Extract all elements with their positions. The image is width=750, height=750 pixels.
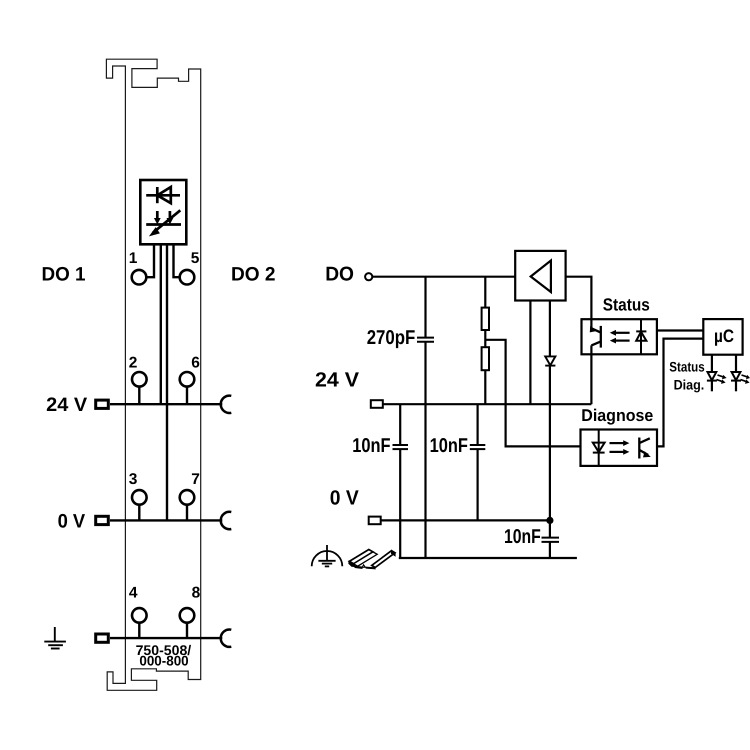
svg-text:10nF: 10nF bbox=[352, 435, 390, 457]
Diagnose optocoupler box bbox=[581, 430, 658, 466]
pin 1 circle bbox=[132, 270, 147, 285]
Status optocoupler box bbox=[582, 319, 657, 354]
svg-text:µC: µC bbox=[714, 326, 734, 346]
status emitter wire to 24V bbox=[590, 345, 592, 404]
svg-text:4: 4 bbox=[129, 585, 138, 602]
LED box diode symbol bbox=[146, 187, 180, 203]
svg-text:000-800: 000-800 bbox=[139, 652, 188, 668]
uC LED 2 bbox=[731, 372, 741, 381]
24V square terminal left bbox=[96, 400, 109, 408]
pin 7 stub bbox=[186, 505, 188, 521]
junction dot 0V bbox=[546, 517, 553, 524]
diagnose arrows bbox=[610, 443, 626, 452]
svg-text:Status: Status bbox=[603, 294, 650, 314]
0V rail right bbox=[381, 519, 550, 521]
capacitor 10nF 1 bbox=[393, 445, 409, 449]
ground symbol left bbox=[44, 627, 66, 649]
earth square terminal left bbox=[96, 634, 109, 642]
resistor link bbox=[484, 330, 486, 347]
amp output wire left bbox=[529, 301, 531, 405]
svg-text:10nF: 10nF bbox=[504, 526, 541, 548]
uC LED 2 wire bbox=[735, 355, 737, 372]
wire cap to earth rail bbox=[549, 542, 551, 558]
svg-text:Diagnose: Diagnose bbox=[581, 406, 653, 425]
pin 8 circle bbox=[180, 608, 195, 623]
resistor chain wire bottom bbox=[484, 370, 486, 404]
10nF capacitor 2 wire bbox=[477, 404, 479, 445]
10nF 2 wire lower bbox=[477, 449, 479, 520]
diode D1 bbox=[545, 356, 555, 365]
svg-text:DO 2: DO 2 bbox=[231, 263, 276, 285]
uC LED 1 wire bbox=[711, 355, 713, 372]
svg-text:2: 2 bbox=[129, 355, 138, 372]
svg-text:5: 5 bbox=[191, 250, 200, 267]
uC LED 1 emission arrows bbox=[717, 375, 725, 382]
pin 5 circle bbox=[180, 270, 195, 285]
module outline 750-508 body bbox=[106, 59, 200, 690]
wire w1 from LED box to pin1 bbox=[146, 244, 154, 277]
midpoint link to diagnose bbox=[485, 340, 580, 447]
pin 2 stub bbox=[138, 386, 140, 404]
pin 4 stub bbox=[138, 623, 140, 639]
earth dome symbol bbox=[312, 545, 343, 566]
amplifier triangle bbox=[531, 261, 551, 293]
svg-text:DO 1: DO 1 bbox=[42, 263, 86, 285]
24V rail right bbox=[383, 403, 592, 405]
wire w3 from LED box to 0V rail bbox=[166, 244, 168, 520]
svg-text:10nF: 10nF bbox=[430, 435, 468, 457]
svg-text:Status: Status bbox=[669, 359, 705, 374]
diagnose LED bbox=[593, 443, 605, 453]
svg-text:1: 1 bbox=[129, 250, 138, 267]
svg-text:Diag.: Diag. bbox=[674, 377, 705, 392]
uC LED 2 emission arrows bbox=[741, 375, 749, 382]
status phototransistor bbox=[591, 326, 600, 348]
LED box arrows symbol bbox=[146, 210, 181, 232]
resistor chain wire top bbox=[484, 277, 486, 308]
diagnose to uC wire bbox=[657, 339, 703, 447]
10nF capacitor 1 wire bbox=[399, 404, 401, 445]
pin 3 stub bbox=[138, 505, 140, 521]
uC LED 1 bbox=[707, 372, 717, 381]
svg-text:7: 7 bbox=[191, 471, 200, 488]
270pF branch wire upper bbox=[424, 277, 426, 338]
svg-text:8: 8 bbox=[192, 585, 201, 602]
capacitor 10nF 2 bbox=[470, 445, 486, 449]
wire w4 from LED box to pin5 bbox=[174, 244, 181, 277]
10nF 1 wire lower bbox=[399, 449, 401, 558]
LED indicator box bbox=[140, 180, 186, 244]
270pF branch wire lower bbox=[424, 342, 426, 558]
earth rail left module bbox=[110, 637, 222, 639]
wire diode to 0V junction bbox=[549, 366, 551, 538]
DO wire bbox=[372, 276, 515, 278]
0V clamp arc left bbox=[221, 512, 232, 529]
pin 3 circle bbox=[132, 490, 147, 505]
amp output wire right with diode bbox=[549, 301, 551, 357]
microcontroller box bbox=[703, 319, 742, 355]
svg-text:DO: DO bbox=[325, 263, 354, 285]
pin 6 stub bbox=[186, 386, 188, 404]
diagnose phototransistor bbox=[639, 438, 650, 459]
earth clamp arc left bbox=[221, 630, 232, 647]
status arrows bbox=[614, 333, 630, 341]
0V rail left module bbox=[110, 519, 222, 521]
status wire through box bbox=[590, 319, 592, 328]
status box divider bbox=[640, 319, 642, 354]
amplifier box bbox=[515, 251, 565, 301]
status to uC wire bbox=[657, 329, 703, 331]
DIN rail symbol bbox=[349, 550, 395, 570]
capacitor 10nF bottom bbox=[542, 538, 560, 542]
svg-text:24 V: 24 V bbox=[46, 394, 87, 416]
svg-text:3: 3 bbox=[129, 471, 138, 488]
resistor R2 bbox=[482, 347, 489, 370]
pin 4 circle bbox=[132, 608, 147, 623]
svg-text:24 V: 24 V bbox=[315, 368, 359, 391]
pin 8 stub bbox=[186, 623, 188, 639]
earth rail right bbox=[399, 557, 577, 559]
svg-text:270pF: 270pF bbox=[367, 327, 416, 349]
0V square terminal right bbox=[369, 517, 381, 525]
24V square terminal right bbox=[371, 400, 383, 408]
svg-text:6: 6 bbox=[191, 355, 200, 372]
diagnose LED line bbox=[598, 430, 600, 466]
wire w2 from LED box to 24V rail bbox=[160, 244, 162, 404]
24V clamp arc left bbox=[221, 396, 232, 413]
capacitor 270pF bbox=[417, 338, 434, 342]
pin 6 circle bbox=[180, 372, 195, 387]
resistor R1 bbox=[482, 308, 489, 330]
24V rail left module bbox=[110, 403, 222, 405]
pin 2 circle bbox=[132, 372, 147, 387]
DO to status wire bbox=[566, 277, 592, 329]
svg-text:0 V: 0 V bbox=[58, 510, 86, 532]
pin 7 circle bbox=[180, 490, 195, 505]
status diode bbox=[636, 331, 646, 340]
DO terminal circle bbox=[365, 273, 372, 280]
0V square terminal left bbox=[96, 516, 109, 524]
svg-text:0 V: 0 V bbox=[330, 487, 359, 510]
